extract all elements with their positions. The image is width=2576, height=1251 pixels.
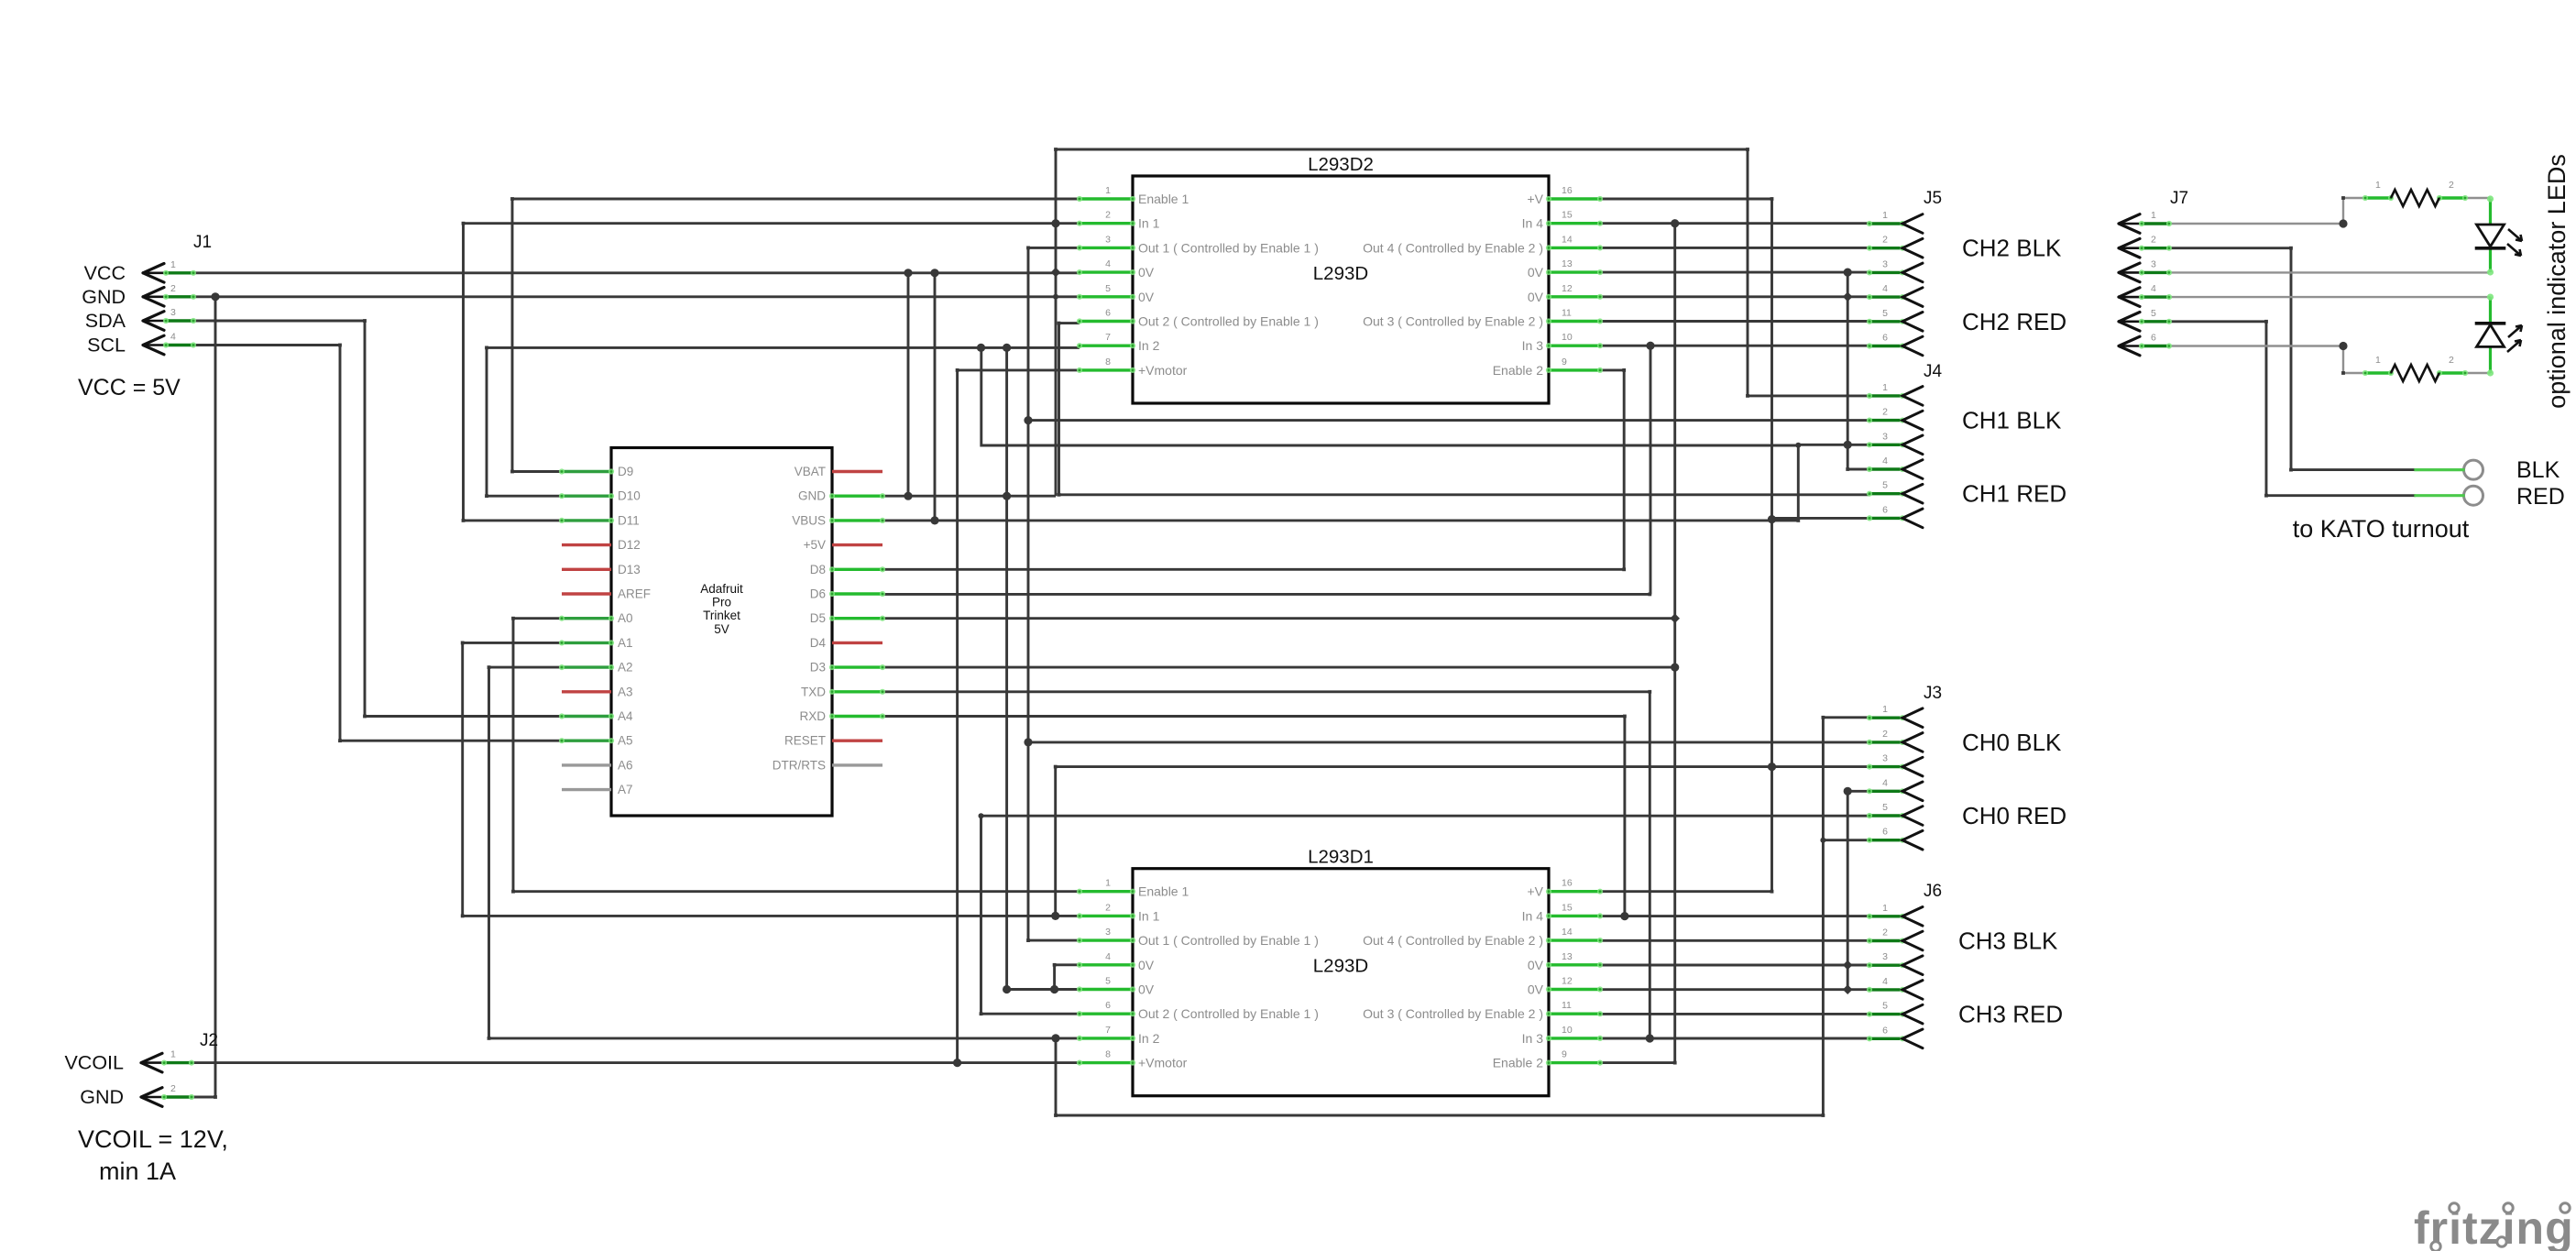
pin 5 (J3) xyxy=(1867,802,1923,825)
wire D5 to In4 trunk xyxy=(882,617,1675,620)
wire In3 L293D2 to J5 pin6 xyxy=(1600,345,1869,347)
svg-text:L293D2: L293D2 xyxy=(1308,154,1374,175)
svg-text:4: 4 xyxy=(2151,283,2156,294)
pin 8 +Vmotor (L293D1) xyxy=(1077,1049,1188,1070)
svg-text:3: 3 xyxy=(1105,234,1111,245)
connector J3 xyxy=(1924,684,1942,703)
pin D4 (Trinket) xyxy=(810,636,882,650)
pin 2 In 1 (L293D1) xyxy=(1077,902,1160,923)
svg-text:3: 3 xyxy=(1882,951,1888,962)
svg-text:RED: RED xyxy=(2516,484,2565,510)
LED LED2 xyxy=(2477,294,2523,377)
svg-text:A0: A0 xyxy=(618,611,633,625)
wire A2 to L293D1 In2 xyxy=(489,667,1080,1038)
svg-text:D12: D12 xyxy=(618,538,641,552)
pin 2 (J7) xyxy=(2119,235,2172,258)
pin 13 0V (L293D2) xyxy=(1528,258,1603,280)
svg-text:In 2: In 2 xyxy=(1138,1031,1160,1046)
svg-text:2: 2 xyxy=(1882,927,1888,938)
svg-text:A7: A7 xyxy=(618,783,633,796)
pin 9 Enable 2 (L293D1) xyxy=(1493,1049,1603,1070)
wire Out3 L293D2 to J5 pin5 CH2 RED xyxy=(1600,320,1869,323)
svg-text:0V: 0V xyxy=(1138,982,1155,997)
svg-text:4: 4 xyxy=(1882,283,1888,294)
svg-text:3: 3 xyxy=(170,307,176,318)
junction J6 pin3 tee xyxy=(1843,960,1853,971)
pin 16 +V (L293D1) xyxy=(1527,878,1603,899)
svg-text:D10: D10 xyxy=(618,489,641,503)
label CH0 BLK xyxy=(1962,729,2062,756)
label CH2 BLK xyxy=(1962,235,2062,262)
pin 3 (J6) xyxy=(1867,951,1923,974)
microcontroller U1 Adafruit Pro Trinket 5V xyxy=(611,448,832,817)
svg-text:CH2 RED: CH2 RED xyxy=(1962,308,2066,335)
svg-text:A5: A5 xyxy=(618,734,633,748)
junction In2 row a xyxy=(977,344,985,352)
pad RED xyxy=(2416,486,2483,505)
connector J2 xyxy=(200,1031,218,1050)
wire J3 pin1 row xyxy=(1823,716,1869,719)
pin AREF (Trinket) xyxy=(562,587,651,601)
svg-text:2: 2 xyxy=(1105,902,1111,913)
svg-text:RXD: RXD xyxy=(799,709,826,723)
wire Out4 L293D2 to J5 pin2 CH2 BLK xyxy=(1600,247,1869,249)
wire J3 pin2 row CH0 BLK xyxy=(1028,741,1869,743)
svg-text:15: 15 xyxy=(1562,902,1573,913)
junction VCC-VBUS link top xyxy=(930,269,938,277)
pin D6 (Trinket) xyxy=(810,587,885,601)
connector J5 xyxy=(1924,189,1942,208)
svg-text:Pro: Pro xyxy=(712,596,731,609)
svg-text:6: 6 xyxy=(1882,827,1888,838)
svg-text:J3: J3 xyxy=(1924,684,1942,703)
svg-text:J1: J1 xyxy=(193,233,212,252)
pin 2 (J6) xyxy=(1867,927,1923,950)
pin +5V (Trinket) xyxy=(804,538,882,552)
svg-text:2: 2 xyxy=(1882,235,1888,246)
svg-text:J5: J5 xyxy=(1924,189,1942,208)
pin D5 (Trinket) xyxy=(810,611,885,625)
pin 4 SCL (J1) xyxy=(87,332,196,357)
svg-text:In 3: In 3 xyxy=(1522,338,1544,353)
wire J7 pin3 to LED1 cathode xyxy=(2171,271,2489,273)
pin 9 Enable 2 (L293D2) xyxy=(1493,357,1603,378)
svg-text:5: 5 xyxy=(1882,1001,1888,1012)
svg-text:Out 4 ( Controlled by Enable 2: Out 4 ( Controlled by Enable 2 ) xyxy=(1363,240,1543,255)
pin 2 GND (J1) xyxy=(82,283,196,308)
svg-text:VCOIL: VCOIL xyxy=(64,1052,124,1074)
pin 2 In 1 (L293D2) xyxy=(1077,210,1160,231)
svg-text:6: 6 xyxy=(1105,1000,1111,1011)
junction +V J3pin3 tee xyxy=(1768,763,1776,771)
pin D12 (Trinket) xyxy=(562,538,641,552)
svg-text:2: 2 xyxy=(1882,729,1888,740)
wire VCC to VBUS link xyxy=(934,273,937,521)
svg-text:3: 3 xyxy=(1882,753,1888,764)
svg-text:D5: D5 xyxy=(810,611,826,625)
svg-text:4: 4 xyxy=(1882,455,1888,466)
svg-text:+V: +V xyxy=(1527,192,1543,206)
svg-text:CH1 RED: CH1 RED xyxy=(1962,480,2066,508)
pin GND (Trinket) xyxy=(798,489,885,503)
op-amp L293D2 body xyxy=(1133,154,1549,403)
label to KATO turnout xyxy=(2293,515,2470,543)
junction In3 L293D1 tee xyxy=(1646,1034,1654,1042)
svg-text:2: 2 xyxy=(1882,407,1888,418)
wire Out3 L293D1 to J6 pin5 CH3 RED xyxy=(1600,1013,1869,1015)
svg-text:+5V: +5V xyxy=(804,538,826,552)
svg-text:2: 2 xyxy=(170,283,176,294)
pin RESET (Trinket) xyxy=(784,734,882,748)
pin 5 (J7) xyxy=(2119,308,2172,331)
svg-text:L293D: L293D xyxy=(1313,956,1368,977)
svg-text:Out 2 ( Controlled by Enable 1: Out 2 ( Controlled by Enable 1 ) xyxy=(1138,314,1319,329)
wire J1.SDA to A4 xyxy=(193,321,562,717)
pin A2 (Trinket) xyxy=(559,661,633,675)
junction In1 L293D2 tee xyxy=(1051,219,1059,227)
svg-text:D4: D4 xyxy=(810,636,827,650)
label VCC = 5V xyxy=(78,375,181,401)
pin 6 (J6) xyxy=(1867,1025,1923,1048)
wire In2 stub down to L293D1 0V xyxy=(1007,347,1080,989)
junction In4-D5 tee xyxy=(1670,613,1680,623)
wire In2 stub to J4 pin3 row xyxy=(981,347,1799,445)
wire J1.GND to L293D2 0V pin5 and J2 vertical xyxy=(193,295,1056,298)
pin A3 (Trinket) xyxy=(562,685,633,698)
svg-text:In 1: In 1 xyxy=(1138,908,1160,923)
pin 3 SDA (J1) xyxy=(85,307,196,332)
svg-text:7: 7 xyxy=(1105,332,1111,343)
svg-text:2: 2 xyxy=(1105,210,1111,221)
pin 1 VCC (J1) xyxy=(84,259,197,284)
pin 4 (J5) xyxy=(1867,283,1923,306)
wire In4 L293D1 to J6 pin1 xyxy=(1600,915,1869,917)
svg-text:+Vmotor: +Vmotor xyxy=(1138,1056,1188,1070)
svg-text:6: 6 xyxy=(1105,308,1111,319)
svg-text:2: 2 xyxy=(2449,180,2454,191)
wire D6 to In3 L293D2 xyxy=(882,593,1650,596)
svg-text:to KATO turnout: to KATO turnout xyxy=(2293,515,2470,543)
wire J7 pin2 to BLK xyxy=(2171,248,2416,470)
svg-text:4: 4 xyxy=(170,332,176,343)
wire +Vmotor L293D2 to VCOIL xyxy=(958,370,1080,1063)
junction J3 pin6 tee xyxy=(1820,838,1825,843)
label VCOIL = 12V min 1A xyxy=(78,1125,228,1185)
wire A0 to L293D1 Enable1 xyxy=(513,619,1080,892)
wire J7 pin1 to R1 xyxy=(2171,198,2365,224)
wire Out2 L293D2 to J4 pin5 CH1 RED xyxy=(1059,324,1870,495)
pin VBAT (Trinket) xyxy=(795,465,882,478)
pin 12 0V (L293D1) xyxy=(1528,976,1603,997)
junction CH0 RED corner xyxy=(979,813,984,818)
svg-text:optional indicator LEDs: optional indicator LEDs xyxy=(2543,154,2571,409)
wire In3 L293D2 to D6 vertical xyxy=(1650,346,1652,594)
svg-text:8: 8 xyxy=(1105,1049,1111,1060)
svg-text:A1: A1 xyxy=(618,636,633,650)
junction +V VBUS tee xyxy=(1768,515,1776,523)
svg-text:1: 1 xyxy=(2375,180,2381,191)
wire J5-J4 0V vertical xyxy=(1847,272,1869,469)
svg-text:GND: GND xyxy=(80,1086,124,1108)
svg-text:4: 4 xyxy=(1882,777,1888,788)
svg-text:1: 1 xyxy=(1882,382,1888,393)
pin 5 0V (L293D1) xyxy=(1077,976,1155,997)
pin 13 0V (L293D1) xyxy=(1528,951,1603,972)
junction GND row a xyxy=(904,492,912,500)
wire J3 pin3 row xyxy=(1056,765,1869,768)
svg-text:In 3: In 3 xyxy=(1522,1031,1544,1046)
wire bottom trunk xyxy=(1056,718,1823,1115)
svg-text:Out 1 ( Controlled by Enable 1: Out 1 ( Controlled by Enable 1 ) xyxy=(1138,933,1319,948)
svg-text:A6: A6 xyxy=(618,758,633,772)
pin A1 (Trinket) xyxy=(559,636,633,650)
svg-text:A2: A2 xyxy=(618,661,633,675)
svg-text:Out 3 ( Controlled by Enable 2: Out 3 ( Controlled by Enable 2 ) xyxy=(1363,314,1543,329)
svg-text:J4: J4 xyxy=(1924,362,1943,381)
wire J7 pin4 to LED2 anode xyxy=(2171,296,2491,298)
junction VCC-GND link top xyxy=(904,269,912,277)
label optional indicator LEDs xyxy=(2543,154,2571,409)
svg-text:D9: D9 xyxy=(618,465,633,478)
pin A6 (Trinket) xyxy=(562,758,633,772)
wire J3 pin6 row xyxy=(1824,839,1869,841)
wire D10 to L293D2 In2 xyxy=(487,347,1080,496)
svg-text:10: 10 xyxy=(1562,1025,1573,1036)
svg-text:3: 3 xyxy=(1105,927,1111,938)
svg-text:9: 9 xyxy=(1562,1049,1567,1060)
junction L293D2 0V pin4 xyxy=(1051,268,1061,278)
wire J6 pin3 leg row xyxy=(1600,964,1869,967)
pin D13 (Trinket) xyxy=(562,563,641,576)
wire +V feed to L293D1 In1 xyxy=(1054,767,1057,916)
wire J1.VCC to L293D2 0V pin4 xyxy=(193,271,1080,274)
svg-text:1: 1 xyxy=(2151,210,2156,221)
label RED xyxy=(2516,484,2565,510)
wire R2 to LED2 cathode xyxy=(2465,372,2491,374)
pin 2 GND (J2) xyxy=(80,1083,194,1108)
pin 4 (J3) xyxy=(1867,777,1923,800)
svg-text:Enable 2: Enable 2 xyxy=(1493,1056,1543,1070)
svg-text:GND: GND xyxy=(82,286,126,308)
pin 2 (J4) xyxy=(1867,407,1923,430)
svg-text:D11: D11 xyxy=(618,513,640,527)
connector J1 xyxy=(193,233,212,252)
pin 12 0V (L293D2) xyxy=(1528,283,1603,304)
pin 1 (J4) xyxy=(1867,382,1923,405)
junction J7 pin1 tee xyxy=(2339,219,2347,227)
svg-text:5: 5 xyxy=(1882,802,1888,813)
wire TXD to L293D1 In3 xyxy=(882,692,1650,1038)
svg-text:3: 3 xyxy=(1882,431,1888,442)
svg-text:AREF: AREF xyxy=(618,587,651,601)
svg-text:7: 7 xyxy=(1105,1025,1111,1036)
svg-text:14: 14 xyxy=(1562,927,1573,938)
pin 5 (J5) xyxy=(1867,308,1923,331)
wire In4 trunk vertical xyxy=(1600,224,1675,1063)
svg-text:6: 6 xyxy=(1882,1025,1888,1036)
svg-text:D8: D8 xyxy=(810,563,826,576)
pin DTR/RTS (Trinket) xyxy=(773,758,882,772)
svg-text:6: 6 xyxy=(1882,333,1888,344)
svg-text:D13: D13 xyxy=(618,563,641,576)
pin 1 VCOIL (J2) xyxy=(64,1049,194,1074)
pin VBUS (Trinket) xyxy=(792,513,885,527)
pin 1 (J7) xyxy=(2119,210,2172,233)
label CH3 BLK xyxy=(1958,927,2058,955)
pin 1 Enable 1 (L293D2) xyxy=(1077,185,1189,206)
wire In4 L293D2 to J5 pin1 xyxy=(1600,222,1869,225)
pin 4 (J6) xyxy=(1867,976,1923,999)
label CH1 RED xyxy=(1962,480,2066,508)
svg-text:VCC: VCC xyxy=(84,262,126,284)
label CH2 RED xyxy=(1962,308,2066,335)
svg-text:2: 2 xyxy=(2151,235,2156,246)
junction J3 pin2 tee xyxy=(1024,738,1032,746)
logo fritzing xyxy=(2414,1202,2574,1251)
wire L293D1 0V pin4 leg link xyxy=(1055,963,1080,966)
svg-text:J7: J7 xyxy=(2170,189,2188,208)
svg-text:CH2 BLK: CH2 BLK xyxy=(1962,235,2062,262)
pin 11 Out 3 ( Controlled by Enable 2 ) (L293D2) xyxy=(1363,308,1603,329)
svg-text:6: 6 xyxy=(2151,333,2156,344)
svg-text:5: 5 xyxy=(1882,308,1888,319)
svg-text:L293D: L293D xyxy=(1313,263,1368,284)
svg-text:0V: 0V xyxy=(1138,958,1155,972)
pin 6 (J3) xyxy=(1867,827,1923,850)
svg-text:2: 2 xyxy=(170,1083,176,1094)
junction L293D1 0V pin5 a xyxy=(1003,985,1011,993)
wire D11 to L293D2 In1 xyxy=(464,224,1080,521)
junction J5 pin4 tee xyxy=(1843,292,1853,302)
wire L293D1 0V stub pin4-pin5 xyxy=(1053,965,1056,990)
label CH1 BLK xyxy=(1962,407,2062,434)
pin 4 (J7) xyxy=(2119,283,2172,306)
connector J6 xyxy=(1924,882,1942,901)
wire J4 pin6 from +V trunk xyxy=(1772,517,1870,520)
svg-text:A3: A3 xyxy=(618,685,633,698)
LED LED1 xyxy=(2477,195,2523,275)
pin 14 Out 4 ( Controlled by Enable 2 ) (L293D1) xyxy=(1363,927,1603,948)
svg-text:1: 1 xyxy=(1882,210,1888,221)
svg-text:SCL: SCL xyxy=(87,335,126,357)
junction L293D1 In2 tee xyxy=(1051,1034,1059,1042)
pin 4 0V (L293D2) xyxy=(1077,258,1155,280)
svg-text:RESET: RESET xyxy=(784,734,826,748)
pin 1 (J3) xyxy=(1867,704,1923,727)
svg-text:In 1: In 1 xyxy=(1138,216,1160,231)
wire In3 L293D1 to J6 pin6 xyxy=(1600,1037,1869,1040)
svg-text:5V: 5V xyxy=(714,622,729,636)
pin 10 In 3 (L293D1) xyxy=(1522,1025,1603,1046)
junction L293D1 In4 tee xyxy=(1620,912,1628,920)
pin 3 (J4) xyxy=(1867,431,1923,454)
wire CH0 RED to Out2 L293D1 xyxy=(981,816,1080,1014)
wire D3 to In4 trunk xyxy=(882,666,1675,669)
svg-text:J6: J6 xyxy=(1924,882,1942,901)
wire J6 pin4 leg row xyxy=(1600,988,1869,991)
junction J6 pin4 tee xyxy=(1843,984,1853,994)
pin D8 (Trinket) xyxy=(810,563,885,576)
wire J3 pin4 vertical xyxy=(1847,791,1849,989)
svg-text:13: 13 xyxy=(1562,258,1573,269)
wire 0V12 L293D2 to J5 pin4 xyxy=(1600,295,1869,298)
svg-text:Adafruit: Adafruit xyxy=(700,582,743,596)
pin A4 (Trinket) xyxy=(559,709,633,723)
junction VBUS row tee xyxy=(930,516,938,524)
svg-text:16: 16 xyxy=(1562,185,1573,196)
pin 3 Out 1 ( Controlled by Enable 1 ) (L293D2) xyxy=(1077,234,1319,255)
pin D11 (Trinket) xyxy=(559,513,640,527)
wire Trinket GND row xyxy=(882,495,1056,498)
pin 14 Out 4 ( Controlled by Enable 2 ) (L293D2) xyxy=(1363,234,1603,255)
svg-text:1: 1 xyxy=(1882,704,1888,715)
wire J1.SCL to A5 xyxy=(193,346,562,741)
wire VCC to GND link xyxy=(907,273,910,496)
svg-text:1: 1 xyxy=(1105,185,1111,196)
pin D9 (Trinket) xyxy=(559,465,633,478)
svg-text:5: 5 xyxy=(1105,976,1111,987)
pin 8 +Vmotor (L293D2) xyxy=(1077,357,1188,378)
junction L293D2 0V pin5 xyxy=(1053,294,1058,300)
svg-text:CH0 RED: CH0 RED xyxy=(1962,802,2066,829)
label CH0 RED xyxy=(1962,802,2066,829)
pin 2 (J5) xyxy=(1867,235,1923,258)
svg-text:VBAT: VBAT xyxy=(795,465,826,478)
wire J7 pin6 to R2 xyxy=(2171,346,2365,374)
svg-text:Enable 2: Enable 2 xyxy=(1493,363,1543,378)
wire bend markers xyxy=(214,148,2345,1117)
svg-text:11: 11 xyxy=(1562,308,1572,319)
svg-text:1: 1 xyxy=(170,259,176,270)
pin 1 (J6) xyxy=(1867,903,1923,926)
junction J4 pin3 vbus tee xyxy=(1795,443,1801,448)
wire RXD to L293D1 In4 xyxy=(882,717,1625,916)
pin 10 In 3 (L293D2) xyxy=(1522,332,1603,353)
junction In4-D3 tee xyxy=(1671,664,1679,672)
svg-text:6: 6 xyxy=(1882,504,1888,515)
wire 0V13 L293D2 to J5 pin3 xyxy=(1600,271,1869,274)
pin 6 (J5) xyxy=(1867,333,1923,356)
junction In2 row b xyxy=(1003,344,1011,352)
svg-text:Enable 1: Enable 1 xyxy=(1138,192,1189,206)
svg-text:12: 12 xyxy=(1562,283,1573,294)
svg-text:4: 4 xyxy=(1105,258,1111,269)
svg-text:+Vmotor: +Vmotor xyxy=(1138,363,1188,378)
svg-text:Out 3 ( Controlled by Enable 2: Out 3 ( Controlled by Enable 2 ) xyxy=(1363,1006,1543,1021)
wire D8 to L293D2 Enable2 xyxy=(882,370,1624,569)
wire +V trunk xyxy=(1600,199,1772,892)
svg-text:1: 1 xyxy=(1882,903,1888,914)
pin 3 Out 1 ( Controlled by Enable 1 ) (L293D1) xyxy=(1077,927,1319,948)
wire J4 pin2 row CH1 BLK xyxy=(1028,419,1869,422)
svg-text:D3: D3 xyxy=(810,661,826,675)
wire top trunk to J4 pin1 xyxy=(1056,149,1869,496)
svg-text:+V: +V xyxy=(1527,884,1543,899)
svg-text:0V: 0V xyxy=(1528,265,1544,280)
pin A7 (Trinket) xyxy=(562,783,633,796)
pin 11 Out 3 ( Controlled by Enable 2 ) (L293D1) xyxy=(1363,1000,1603,1021)
svg-text:0V: 0V xyxy=(1528,958,1544,972)
svg-text:In 2: In 2 xyxy=(1138,338,1160,353)
pin RXD (Trinket) xyxy=(799,709,885,723)
svg-text:1: 1 xyxy=(1105,878,1111,889)
svg-text:min 1A: min 1A xyxy=(99,1158,176,1185)
resistor R2 xyxy=(2362,355,2468,381)
svg-text:L293D1: L293D1 xyxy=(1308,847,1374,868)
svg-text:CH0 BLK: CH0 BLK xyxy=(1962,729,2062,756)
pin 16 +V (L293D2) xyxy=(1527,185,1603,206)
wire GND vertical J1-J2 xyxy=(192,297,215,1097)
